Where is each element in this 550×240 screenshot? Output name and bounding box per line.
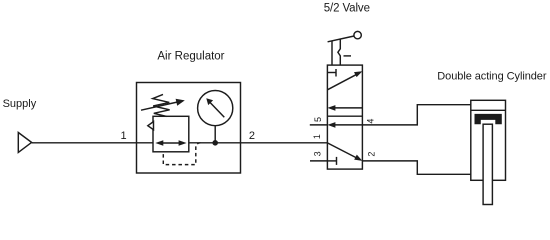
svg-text:3: 3 bbox=[312, 151, 322, 156]
svg-text:2: 2 bbox=[249, 130, 255, 142]
regulator adjustment arrow bbox=[141, 99, 185, 110]
regulator adjustment spring bbox=[153, 94, 170, 116]
regulator relief nozzle bbox=[148, 122, 154, 130]
svg-text:2: 2 bbox=[366, 152, 376, 157]
svg-text:1: 1 bbox=[312, 134, 322, 139]
svg-text:5: 5 bbox=[313, 117, 323, 122]
regulator flow arrow (double headed) bbox=[155, 140, 186, 146]
cylinder piston bbox=[475, 114, 502, 124]
valve port label 5 bbox=[313, 117, 323, 122]
valve port 3 stub bbox=[310, 160, 327, 162]
valve port label 3 bbox=[312, 151, 322, 156]
regulator valve body bbox=[153, 116, 189, 152]
valve V1 roller lever actuator bbox=[328, 31, 362, 65]
node gauge junction bbox=[212, 140, 218, 146]
svg-text:Double acting Cylinder: Double acting Cylinder bbox=[437, 70, 547, 82]
svg-text:1: 1 bbox=[120, 130, 126, 142]
regulator enclosure box bbox=[137, 83, 241, 174]
valve state A: flow 2 to 3 bbox=[327, 105, 362, 111]
port label 1 (regulator inlet) bbox=[120, 130, 126, 142]
svg-text:Air Regulator: Air Regulator bbox=[157, 50, 224, 62]
wire regulator inlet to valve body bbox=[137, 142, 154, 144]
svg-text:Supply: Supply bbox=[3, 98, 37, 110]
wire valve port 2 to cylinder rod end bbox=[362, 161, 470, 174]
valve port 5 stub bbox=[310, 124, 328, 126]
valve state B: flow 4 to 5 bbox=[327, 122, 362, 128]
svg-text:5/2 Valve: 5/2 Valve bbox=[324, 3, 370, 15]
wire valve port 4 to cylinder cap end bbox=[362, 105, 470, 125]
svg-text:4: 4 bbox=[366, 119, 376, 124]
regulator pilot line (dashed) bbox=[163, 143, 200, 165]
valve port label 2 bbox=[366, 152, 376, 157]
valve port label 1 bbox=[312, 134, 322, 139]
label Double acting Cylinder bbox=[437, 70, 547, 82]
pressure gauge G1 bbox=[198, 91, 233, 143]
label 5/2 Valve bbox=[324, 3, 370, 15]
label Supply bbox=[3, 98, 37, 110]
valve port label 4 bbox=[366, 119, 376, 124]
wire regulator valve body to outlet bbox=[189, 142, 241, 144]
wire supply to regulator inlet bbox=[32, 142, 137, 144]
supply source P bbox=[18, 133, 31, 153]
valve state B: flow 1 to 2 bbox=[327, 143, 362, 161]
valve state B: port 3 blocked bbox=[327, 157, 336, 165]
valve state A: port 5 blocked bbox=[327, 69, 336, 77]
valve state A: flow 1 to 4 bbox=[327, 71, 362, 90]
cylinder piston rod bbox=[483, 124, 492, 204]
valve V1 body (two position boxes) bbox=[327, 65, 362, 169]
port label 2 (regulator outlet) bbox=[249, 130, 255, 142]
label Air Regulator bbox=[157, 50, 224, 62]
cylinder C1 barrel bbox=[471, 100, 506, 180]
wire regulator outlet to valve port 1 bbox=[241, 142, 328, 144]
